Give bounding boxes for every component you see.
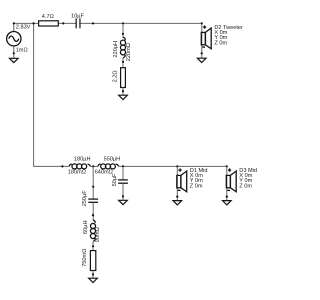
node after C [92, 22, 94, 24]
ground under D1 [173, 201, 182, 205]
ground under D2 [197, 58, 206, 62]
speaker D3 Mid [226, 168, 257, 192]
ground under 50uF [119, 200, 128, 204]
wire tweeter upper [201, 23, 203, 58]
capacitor 250uF [82, 190, 98, 207]
node D3 top [226, 165, 228, 167]
svg-text:180µH: 180µH [74, 156, 91, 162]
svg-text:550µH: 550µH [104, 156, 121, 162]
speaker D2 Tweeter [201, 25, 243, 49]
wire mid rail [33, 165, 227, 167]
svg-text:250µF: 250µF [82, 190, 88, 207]
node above ground [122, 90, 124, 92]
svg-text:750mΩ: 750mΩ [82, 249, 88, 267]
ground under V1 [10, 58, 19, 62]
node above 60uH [92, 214, 94, 216]
svg-text:50µF: 50µF [112, 173, 118, 186]
wire L to R [122, 58, 124, 68]
svg-text:1mΩ: 1mΩ [16, 48, 28, 54]
svg-text:60µH: 60µH [83, 221, 89, 235]
node L top [122, 33, 124, 35]
wire shunt branch upper [122, 23, 124, 38]
node after R [62, 22, 64, 24]
wire 50uF branch [122, 166, 124, 179]
voltage source V1 2.83V [7, 25, 31, 54]
node above bottom ground [92, 273, 94, 275]
node between 60uH and 750m [92, 245, 94, 247]
node between inductors [92, 165, 94, 167]
node tweeter bottom [201, 52, 203, 54]
node tweeter shunt junction [122, 22, 124, 24]
svg-text:Z 0m: Z 0m [239, 183, 252, 189]
inductor 60uH vertical [83, 220, 101, 242]
svg-text:2.2Ω: 2.2Ω [112, 70, 118, 82]
node tweeter top [201, 22, 203, 24]
wire V1 to ground [13, 46, 15, 58]
speaker D1 Mid [177, 168, 208, 192]
wire vertical feed [33, 23, 35, 166]
wire 50uF to ground [122, 183, 124, 200]
node D3 bottom [226, 196, 228, 198]
svg-text:220µH: 220µH [113, 41, 119, 58]
wire D1 upper [176, 166, 178, 200]
svg-text:180mΩ: 180mΩ [68, 170, 86, 176]
wire L to R bottom [92, 241, 94, 250]
wire R to ground [122, 88, 124, 96]
wire top rail [14, 23, 202, 31]
resistor 4.7ohm [39, 14, 59, 26]
wire R to ground bottom [92, 271, 94, 279]
svg-text:2.83V: 2.83V [16, 25, 31, 31]
inductor 180uH [68, 156, 91, 175]
node 50uF bottom [122, 195, 124, 197]
inductor 220uH vertical [113, 37, 132, 61]
wire D3 upper [226, 166, 228, 200]
ground bottom branch [89, 278, 98, 282]
svg-text:Z 0m: Z 0m [214, 40, 227, 46]
svg-text:Z 0m: Z 0m [190, 183, 203, 189]
node 50uF junction [122, 165, 124, 167]
node feed junction [33, 22, 35, 24]
capacitor 50uF [112, 173, 128, 186]
ground under D3 [223, 201, 232, 205]
node V1 bottom [13, 52, 15, 54]
node mid-left [61, 165, 63, 167]
svg-text:640mΩ: 640mΩ [95, 170, 113, 176]
wire 250uF to L [92, 203, 94, 221]
svg-text:90mΩ: 90mΩ [95, 227, 101, 242]
svg-text:4.7Ω: 4.7Ω [42, 14, 54, 20]
svg-text:220mΩ: 220mΩ [126, 43, 132, 61]
resistor 2.2ohm [112, 68, 125, 88]
node 250uF top [92, 186, 94, 188]
inductor 550uH [95, 156, 121, 175]
resistor 750mohm [82, 249, 96, 271]
svg-text:10µF: 10µF [71, 13, 84, 19]
wire 250uF branch upper [92, 166, 94, 199]
ground shunt branch [119, 95, 128, 99]
node D1 bottom [176, 196, 178, 198]
node D1 top [176, 165, 178, 167]
node top-left corner [13, 22, 15, 24]
capacitor 10uF [71, 13, 84, 28]
node between L and R [122, 61, 124, 63]
